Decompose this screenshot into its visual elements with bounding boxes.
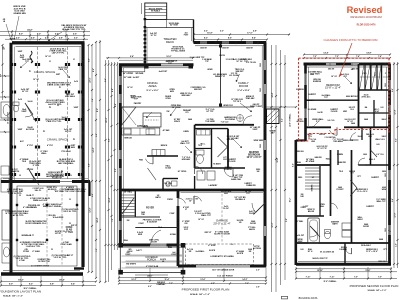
svg-text:PIER FTG TYPL: PIER FTG TYPL [47,121,63,123]
svg-text:AREA: AREA [148,84,156,88]
svg-text:5'-11 1/2" PORCH: 5'-11 1/2" PORCH [217,276,233,278]
deck stair box at top [145,3,167,20]
svg-text:WWM ON 4" GRAVEL: WWM ON 4" GRAVEL [43,205,62,208]
upper left wall windows [305,74,307,86]
svg-text:2850: 2850 [385,173,387,177]
garage joist dashed line [221,194,223,242]
wic chevron doors [218,137,228,147]
svg-text:95 PROCTOR: 95 PROCTOR [38,261,50,263]
svg-text:9'-0": 9'-0" [97,108,99,112]
svg-text:9'-2": 9'-2" [29,284,33,286]
foundation plan top wall [12,41,85,44]
svg-text:1/8"/FT: 1/8"/FT [55,233,62,235]
svg-text:SCALE: 1/4" = 1'-0": SCALE: 1/4" = 1'-0" [190,293,210,296]
svg-text:OPNG: OPNG [165,98,171,100]
svg-text:4.5 IF SL TYPL: 4.5 IF SL TYPL [63,210,77,213]
svg-text:PANTRY: PANTRY [134,102,142,105]
svg-text:W 6x6 WWM: W 6x6 WWM [53,217,64,219]
svg-text:POCKET: POCKET [336,189,344,191]
svg-text:SCALE: 1/4" = 1'-0": SCALE: 1/4" = 1'-0" [367,289,386,292]
svg-text:LAUNDRY: LAUNDRY [209,184,219,187]
angled door leaves [350,180,357,188]
svg-text:30x30: 30x30 [358,136,363,138]
svg-text:42" HIGH: 42" HIGH [170,24,179,27]
svg-text:4" SLAB: 4" SLAB [32,250,40,253]
svg-text:16" OC: 16" OC [22,91,29,93]
svg-text:FLOORING: FLOORING [225,119,236,121]
svg-text:18'-2": 18'-2" [290,198,292,203]
svg-text:HDR: HDR [343,111,348,113]
left wall jog connector [296,139,306,141]
wall hatch ticks left plan [10,52,13,54]
svg-text:ROOM: ROOM [239,84,249,88]
svg-text:13'-6": 13'-6" [200,279,205,281]
first floor wall hatch ticks top [197,41,199,44]
svg-text:EXP JT: EXP JT [55,191,62,193]
svg-text:7'-2": 7'-2" [112,218,114,222]
garage attic dashed outline [185,244,253,265]
svg-text:12'-8": 12'-8" [90,207,92,212]
svg-text:36" OPNG: 36" OPNG [178,171,187,173]
svg-text:SD/CM: SD/CM [319,134,325,136]
bath toilet second floor [325,231,331,239]
svg-text:TILE: TILE [22,161,27,163]
svg-text:16" OC: 16" OC [33,79,40,81]
svg-text:EXP JT: EXP JT [205,232,213,234]
laundry washer dryer [197,171,205,180]
foundation plan bottom wall [1,272,83,275]
svg-text:5'-8": 5'-8" [395,243,397,247]
svg-text:38'-6" OVERALL: 38'-6" OVERALL [23,287,36,290]
svg-text:8'-0": 8'-0" [109,138,111,142]
svg-text:16" OC: 16" OC [127,87,133,89]
svg-text:SD/CM: SD/CM [219,55,225,57]
svg-text:100: 100 [2,49,5,51]
svg-text:42" BAR: 42" BAR [163,129,171,132]
misc leader arrows middle [146,112,152,118]
svg-text:B 36x80 DR: B 36x80 DR [147,221,158,223]
svg-text:8'-4": 8'-4" [92,68,95,72]
svg-text:LINEN: LINEN [183,131,189,133]
middle top dimension rows [194,34,290,36]
bath tub second floor [308,218,320,243]
svg-text:WD STEPS: WD STEPS [126,264,137,266]
closet X door marks [360,65,365,91]
svg-text:2x4 W: 2x4 W [317,111,322,114]
treated deck left edge [144,20,146,65]
svg-text:J2: J2 [33,119,35,121]
svg-text:16'-4": 16'-4" [108,197,111,202]
svg-text:14 DIA: 14 DIA [165,166,171,169]
second floor top wall windows [326,63,336,65]
extra leader arrows [63,70,70,78]
svg-text:HEARTH: HEARTH [11,170,20,173]
svg-text:WWM: WWM [22,235,27,237]
svg-text:2x8 PT: 2x8 PT [136,250,142,252]
dining-family divider line with columns [220,44,222,107]
svg-text:SLAB JT: SLAB JT [26,194,34,197]
left margin dim column [2,45,4,100]
lower area pier squares [16,204,18,206]
svg-text:WALL TYP: WALL TYP [180,142,190,145]
closet cells extra dividers [364,64,366,90]
svg-text:16x16: 16x16 [28,101,33,103]
svg-text:9-0 CLG: 9-0 CLG [328,120,335,122]
svg-text:KITCHEN: KITCHEN [137,125,148,128]
porch floor board lines [122,255,183,257]
wall hatch ticks right plan [388,70,391,72]
bedroom interior horizontal [306,99,359,101]
svg-text:3050 SH: 3050 SH [246,48,253,50]
garage bottom wall [178,265,266,268]
svg-text:SHELF & ROD TYP: SHELF & ROD TYP [312,258,328,260]
svg-text:20'-2": 20'-2" [106,117,108,122]
svg-text:SHELF: SHELF [357,219,363,221]
svg-text:W/ RAILS: W/ RAILS [151,10,161,13]
foundation step corner [88,182,90,197]
svg-text:3050 SH: 3050 SH [200,48,207,50]
section cut squiggle [30,51,33,63]
svg-text:4'-8": 4'-8" [45,36,49,39]
bedroom bottom wall [306,126,332,128]
svg-text:5'-6": 5'-6" [115,103,117,107]
svg-text:Revised: Revised [347,5,383,15]
svg-text:CHANGES FROM ATTIC TO BEDROOM: CHANGES FROM ATTIC TO BEDROOM [324,38,378,42]
svg-text:7'-2": 7'-2" [169,283,173,285]
svg-text:PROPOSED SECOND FLOOR PLAN: PROPOSED SECOND FLOOR PLAN [350,284,399,288]
deck dimension row [106,57,193,59]
wic internal shelf line [195,147,212,149]
svg-text:3050: 3050 [260,88,262,92]
foundation right dimension columns [88,45,90,272]
svg-text:12'-0": 12'-0" [395,212,397,217]
m closet divider [344,243,346,263]
svg-text:TYP OF 2: TYP OF 2 [233,101,241,103]
foundation top dimension rows [0,31,90,33]
bottom left room door swing [310,226,320,237]
svg-text:SILL PL: SILL PL [35,190,43,192]
svg-text:4" PVC: 4" PVC [27,144,34,147]
garage side door gap [193,196,196,204]
svg-text:FOYER: FOYER [146,208,154,210]
svg-text:12'-4": 12'-4" [394,109,397,114]
svg-text:ROD+SHLF: ROD+SHLF [361,245,372,247]
chimney hatch [267,110,279,122]
cluster bottom wall [195,167,245,169]
hall cluster horizontal wall [147,155,178,157]
svg-text:CJ: CJ [69,199,71,201]
svg-text:WALL TYP: WALL TYP [376,200,386,203]
porch floor board lines [126,254,183,256]
svg-text:P1: P1 [59,87,61,89]
svg-text:DET: DET [350,173,353,175]
svg-text:AT STAIR: AT STAIR [306,160,315,163]
svg-text:SHELF+ROD: SHELF+ROD [343,140,354,142]
svg-text:ABV: ABV [71,146,76,149]
svg-text:2468 DR: 2468 DR [314,156,322,159]
hall door swing diagonal [148,168,157,180]
svg-text:10'-6": 10'-6" [277,157,279,162]
first floor bottom extension lines [118,268,120,282]
svg-text:2x6 EXT: 2x6 EXT [133,77,141,79]
svg-text:9'-4": 9'-4" [71,283,75,286]
cluster top edge [195,128,228,130]
svg-text:HDWD: HDWD [207,69,213,71]
svg-text:J1: J1 [73,59,75,61]
svg-text:17'-4" x 15'-8": 17'-4" x 15'-8" [237,89,249,92]
kitchen island [143,113,161,127]
svg-text:2x10: 2x10 [18,99,22,101]
svg-text:HDR ABV: HDR ABV [182,158,191,161]
svg-text:WDW: WDW [382,189,387,191]
svg-text:10'-2": 10'-2" [131,279,136,281]
left wing top wall [119,63,194,66]
chimney bump [267,109,280,124]
svg-text:SPACE: SPACE [174,120,181,123]
svg-text:EGRESS: EGRESS [296,89,304,91]
svg-text:7'-9": 7'-9" [378,277,382,279]
closet interior rods [360,76,370,78]
svg-text:3050: 3050 [260,63,262,67]
svg-text:J3: J3 [19,175,21,177]
svg-text:6'-8" CLG: 6'-8" CLG [376,154,384,156]
svg-text:P3: P3 [73,139,75,141]
svg-text:BATH: BATH [332,222,338,225]
svg-text:HALL: HALL [326,158,332,161]
svg-text:CRAWL SPACE: CRAWL SPACE [47,138,68,142]
svg-text:8'-6": 8'-6" [228,38,232,40]
right side cell row below bedroom [359,112,390,114]
mud lockers row [152,150,165,156]
svg-text:2468: 2468 [188,118,192,121]
svg-text:9'-8": 9'-8" [50,284,54,286]
ceiling break line [121,106,255,108]
svg-text:UND WALL: UND WALL [65,95,76,98]
svg-text:EGRESS: EGRESS [224,169,232,171]
svg-text:P2: P2 [57,105,59,107]
svg-text:7'-11": 7'-11" [330,277,335,279]
second floor top dimension rows [304,54,390,56]
svg-text:8" CMU: 8" CMU [27,169,34,171]
svg-text:RLDR-2023-0476: RLDR-2023-0476 [357,24,377,27]
svg-text:11'-2" x 10'-6": 11'-2" x 10'-6" [366,251,378,253]
svg-text:COAT: COAT [138,222,144,225]
svg-text:WWM 6x6 10/10: WWM 6x6 10/10 [33,200,47,202]
crawl space pier rows [11,63,13,66]
svg-text:16" OC: 16" OC [331,76,338,78]
svg-text:8'-8": 8'-8" [89,163,91,167]
closet partition walls [370,64,372,90]
svg-text:CRAWL SPACE: CRAWL SPACE [34,70,55,74]
svg-text:EXP JT: EXP JT [67,255,74,257]
second floor door arcs [330,130,338,135]
svg-text:30" VAN: 30" VAN [124,76,132,79]
svg-text:WDW SEAT: WDW SEAT [254,139,265,142]
first floor right wall [264,43,267,267]
svg-text:15'-8" x 12'-4": 15'-8" x 12'-4" [325,86,341,90]
svg-text:2 CLOSET 4A: 2 CLOSET 4A [325,136,337,139]
middle left dimension columns [105,60,107,282]
svg-text:14'-2": 14'-2" [242,278,247,281]
svg-text:VENT: VENT [252,129,258,131]
left edge bath cluster upper [1,102,12,118]
second floor upper left wall [304,64,307,141]
left wall window openings [119,76,121,85]
left plan bottom extension lines [0,276,2,286]
svg-text:31'-8" OVERALL: 31'-8" OVERALL [323,280,336,283]
dividing wall door gap [60,180,72,183]
deck rail post squares [144,18,147,20]
svg-text:2668: 2668 [379,239,383,241]
svg-text:2-11 7/8 LVL: 2-11 7/8 LVL [246,62,257,64]
svg-text:22'-6": 22'-6" [90,77,92,82]
svg-text:LVL FLUSH: LVL FLUSH [229,75,239,77]
svg-text:9'-4": 9'-4" [130,55,134,58]
upper cabinets wing top [122,67,145,72]
svg-text:SHLV: SHLV [382,119,388,121]
svg-text:PIER: PIER [62,119,67,121]
svg-text:12'-2": 12'-2" [272,222,274,227]
svg-text:3050: 3050 [310,74,314,76]
svg-text:SLOPE TO DOOR: SLOPE TO DOOR [214,233,230,235]
svg-text:OPEN: OPEN [300,207,306,209]
svg-text:P1: P1 [29,71,31,73]
first floor rear wall and garage top wall [119,189,265,192]
svg-text:SINK 2B: SINK 2B [124,138,132,140]
first floor left wall [119,65,122,247]
kitchen corner pantry [122,107,136,125]
svg-text:VENT: VENT [21,111,27,113]
svg-text:16" OC: 16" OC [45,56,52,58]
svg-text:2468: 2468 [364,118,368,121]
crawl space vertical beam line B [67,47,69,180]
left plan gap dim row crossing [266,106,296,108]
powder room walls [163,178,178,180]
foundation bottom dimension rows [1,281,96,283]
svg-text:HDR: HDR [138,234,143,236]
svg-text:ACCESS: ACCESS [253,247,262,250]
svg-text:TYP ALL SIDES: TYP ALL SIDES [171,49,186,52]
svg-text:J1: J1 [49,61,51,63]
svg-text:FTG 24x24: FTG 24x24 [61,150,70,153]
svg-text:2850 SH: 2850 SH [296,151,304,153]
svg-text:11'-0 x 10'-2: 11'-0 x 10'-2 [357,191,368,193]
foundation dim extension lines [11,31,13,41]
svg-text:2'-0": 2'-0" [256,269,260,271]
svg-text:6'-6": 6'-6" [392,88,394,92]
svg-text:2x10 JST: 2x10 JST [296,235,305,237]
svg-text:36" RAIL: 36" RAIL [296,220,304,223]
foundation inner slab outline [17,186,77,266]
svg-text:BENCH: BENCH [161,145,168,147]
svg-text:LINEN: LINEN [337,154,343,156]
svg-text:9'-6": 9'-6" [286,218,288,222]
svg-text:SLOPE: SLOPE [209,250,216,252]
svg-text:SEE DET: SEE DET [194,89,203,91]
svg-text:CARPET: CARPET [308,93,317,96]
svg-text:2x10: 2x10 [74,81,78,83]
svg-text:7'-9": 7'-9" [354,277,358,279]
svg-text:CARPET: CARPET [306,99,314,102]
svg-text:WD RAIL: WD RAIL [135,72,144,75]
right rooms partition [370,127,372,165]
foyer walls [121,216,160,218]
kitchen sink and range [124,129,131,134]
svg-text:ATTIC ACC: ATTIC ACC [362,95,372,98]
svg-text:M. BATH: M. BATH [213,163,221,166]
first floor main top wall [194,41,267,44]
svg-text:4'-6": 4'-6" [31,36,35,39]
svg-text:2850: 2850 [385,83,387,87]
svg-text:2850 SH: 2850 SH [328,69,335,71]
svg-text:8'-0": 8'-0" [19,34,23,36]
second floor bottom dimension rows [296,271,397,273]
svg-text:DECK: DECK [166,40,174,44]
svg-text:36" RAIL: 36" RAIL [124,191,133,194]
stairs first floor [122,194,135,196]
svg-text:DRAIN: DRAIN [31,206,37,209]
svg-text:2850: 2850 [382,171,386,173]
red dashed revision boundary left [298,58,300,141]
svg-text:ACCESS: ACCESS [26,128,35,131]
svg-text:SLOPE: SLOPE [237,253,244,255]
extra corridor stubs [337,150,339,165]
svg-text:BATH: BATH [155,196,161,199]
svg-text:16 OC JOIST: 16 OC JOIST [8,111,10,124]
svg-text:2468 DR: 2468 DR [338,161,346,164]
bath toilet and vanity [197,155,204,164]
svg-text:BASE CAB: BASE CAB [231,178,241,181]
svg-text:GRAVEL FILL: GRAVEL FILL [34,222,47,225]
svg-text:GYP: GYP [184,229,189,231]
svg-text:HDWD FLR: HDWD FLR [223,105,233,107]
svg-text:16" OC: 16" OC [150,35,157,37]
svg-text:FOUNDATION LAYOUT PLAN: FOUNDATION LAYOUT PLAN [0,290,41,294]
foundation bottom-right corner step [74,267,84,269]
svg-text:ANCH: ANCH [249,228,255,231]
right wall window openings [264,60,266,70]
garage door opening [196,265,250,268]
red leader arrow [339,43,352,77]
svg-text:WALL 5-0 H: WALL 5-0 H [375,138,385,141]
svg-text:4x8 FTG TYPL: 4x8 FTG TYPL [48,103,62,106]
left edge lower porch cell [2,210,11,240]
svg-text:CJ: CJ [63,231,65,233]
svg-text:3050 SH: 3050 SH [378,261,386,263]
svg-text:17'-0": 17'-0" [247,33,252,35]
svg-text:5-0 KNEE: 5-0 KNEE [308,109,317,111]
svg-text:STAIRS: STAIRS [311,184,314,192]
svg-text:6'-2": 6'-2" [92,193,94,197]
svg-text:22'-6" OVERALL: 22'-6" OVERALL [289,113,292,126]
stairs second floor [305,167,320,169]
svg-text:5 1/4 CRN: 5 1/4 CRN [226,58,235,61]
extra bottom dim row [296,268,391,270]
svg-text:9'-0": 9'-0" [115,168,117,172]
svg-text:7'-11": 7'-11" [306,277,311,279]
svg-text:36" H: 36" H [308,251,313,253]
svg-text:FLOOR: FLOOR [331,111,338,113]
svg-text:SCALE: 1/4" = 1'-0": SCALE: 1/4" = 1'-0" [3,295,23,298]
svg-text:9'-0": 9'-0" [9,284,13,286]
svg-text:16" OC TYP: 16" OC TYP [317,148,327,150]
second lower beam line [61,186,63,266]
second floor right dimension columns [393,62,395,268]
svg-text:SLAB JT: SLAB JT [26,234,34,237]
svg-text:4" STEP: 4" STEP [208,244,216,247]
svg-text:4'-8": 4'-8" [59,36,63,39]
family room ceiling fan [237,115,244,122]
